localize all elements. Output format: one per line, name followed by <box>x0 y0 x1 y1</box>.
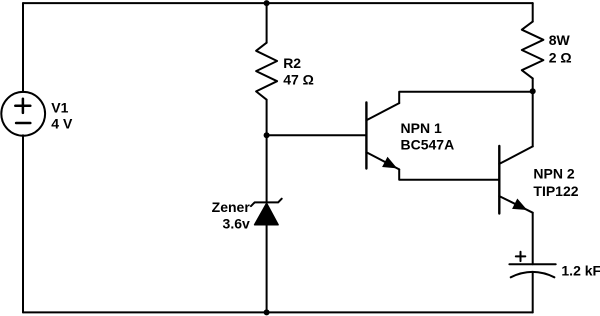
node collector junction <box>530 88 536 94</box>
svg-text:2 Ω: 2 Ω <box>549 49 572 65</box>
svg-text:47 Ω: 47 Ω <box>283 72 314 88</box>
wire capacitor to bottom rail <box>532 272 534 313</box>
wire Q1 emitter to Q2 base <box>399 169 499 179</box>
transistor Q2 collector diagonal <box>499 146 532 164</box>
capacitor C1 plus sign <box>516 252 526 261</box>
wire bottom rail <box>23 311 533 313</box>
svg-text:NPN 2: NPN 2 <box>533 166 574 182</box>
node top junction <box>264 0 270 6</box>
wire top rail <box>23 2 533 4</box>
transistor Q1 base bar <box>365 103 367 169</box>
node bottom junction <box>264 309 270 315</box>
zener diode anode triangle <box>255 203 279 224</box>
transistor Q1 emitter arrow <box>382 157 397 169</box>
wire Q2 emitter to capacitor <box>532 213 534 265</box>
capacitor C1 bottom plate (curved) <box>511 272 555 277</box>
wire middle node to zener <box>266 135 268 202</box>
transistor Q2 emitter diagonal <box>499 196 532 213</box>
svg-text:R2: R2 <box>283 55 301 71</box>
svg-text:V1: V1 <box>51 99 68 115</box>
svg-text:1.2 kF: 1.2 kF <box>561 262 600 278</box>
wire left rail upper (top rail to V1) <box>22 3 24 92</box>
svg-text:8W: 8W <box>549 32 571 48</box>
transistor Q1 collector diagonal <box>366 103 399 120</box>
svg-text:3.6v: 3.6v <box>223 215 250 231</box>
transistor Q2 base bar <box>498 146 500 214</box>
wire left rail lower (V1 to bottom rail) <box>22 135 24 312</box>
wire Q1 collector to right rail node <box>399 92 533 103</box>
svg-text:Zener: Zener <box>212 199 251 215</box>
wire collector node to Q2 collector <box>532 91 534 146</box>
svg-text:TIP122: TIP122 <box>533 183 578 199</box>
wire middle branch top lead (top rail to R2) <box>266 3 268 43</box>
svg-text:4 V: 4 V <box>51 116 73 132</box>
resistor R2 <box>256 43 277 100</box>
wire Q1 base (middle node to Q1) <box>267 134 367 136</box>
transistor Q1 emitter diagonal <box>366 152 399 169</box>
zener diode cathode bar <box>251 199 282 206</box>
capacitor C1 top plate <box>509 263 555 265</box>
voltage source V1 <box>1 92 45 136</box>
transistor Q2 emitter arrow <box>512 199 527 211</box>
svg-text:NPN 1: NPN 1 <box>401 120 442 136</box>
svg-text:BC547A: BC547A <box>401 137 455 153</box>
resistor 8W 2ohm <box>522 22 544 79</box>
wire right rail top lead (top rail to 8W resistor) <box>532 3 534 22</box>
wire R2 to middle node <box>266 100 268 136</box>
node middle junction <box>264 132 270 138</box>
wire 8W resistor to collector node <box>532 78 534 91</box>
wire zener to bottom rail <box>266 225 268 313</box>
